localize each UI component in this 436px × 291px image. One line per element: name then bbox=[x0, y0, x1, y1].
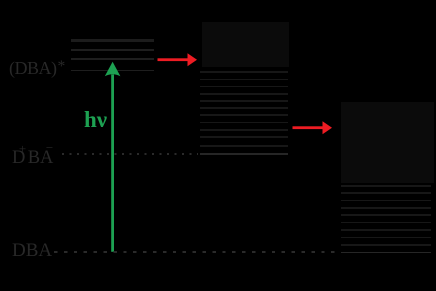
label (DBA)* bbox=[9, 58, 65, 79]
label DBA bbox=[12, 240, 52, 262]
level (DBA)* vibronic line v2 bbox=[71, 49, 154, 51]
label hv bbox=[84, 107, 107, 133]
level D+BA- dotted line bbox=[62, 153, 198, 155]
level D+BA- origin solid segment bbox=[200, 153, 288, 155]
green arrow hv (excitation DBA -> (DBA)*) bbox=[100, 55, 130, 255]
label D+BA- bbox=[12, 144, 53, 169]
level (DBA)* merged top band bbox=[71, 39, 154, 42]
acceptor manifold origin line (DBA level) bbox=[341, 252, 431, 254]
level (DBA)* origin line v0 bbox=[71, 70, 154, 72]
acceptor manifold continuum block bbox=[341, 102, 434, 183]
bridge manifold continuum block bbox=[202, 22, 289, 67]
red arrow 1 ((DBA)* -> bridge manifold) bbox=[155, 50, 201, 70]
acceptor manifold discrete lines bbox=[341, 185, 431, 187]
red arrow 2 (bridge -> acceptor manifold) bbox=[290, 118, 336, 138]
bridge manifold discrete lines bbox=[200, 71, 288, 73]
level DBA dashed line bbox=[54, 251, 338, 253]
level (DBA)* vibronic line v1 bbox=[71, 58, 154, 60]
